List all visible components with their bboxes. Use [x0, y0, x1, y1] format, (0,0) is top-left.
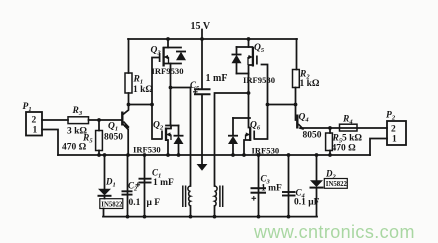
wire branch to right primary winding [215, 93, 249, 186]
svg-text:Q4: Q4 [299, 113, 310, 124]
svg-text:8050: 8050 [303, 131, 322, 141]
node Q6 source on rail [242, 153, 246, 157]
capacitor C2 0.1uF [122, 181, 161, 209]
wire right half-bridge column [248, 74, 250, 119]
node line Q3 bottom [164, 63, 182, 65]
wire R5a bottom lead [98, 151, 100, 156]
transformer right primary winding [215, 186, 218, 206]
node line Q6 top [233, 117, 250, 119]
wire Q2 gate lead [152, 105, 162, 140]
wire left half-bridge column [170, 64, 172, 126]
wire gate drive line left [129, 104, 153, 106]
wire R1 top lead from rail [128, 39, 130, 73]
wire Q2 body diode bottom lead [178, 144, 180, 156]
node C3 on rail [257, 153, 261, 157]
svg-text:R1: R1 [133, 75, 144, 86]
node Q3 source on +15V rail [166, 37, 170, 41]
node right bridge to winding tap [247, 91, 251, 95]
svg-text:R4: R4 [342, 115, 353, 126]
wire Q6 drain stub [249, 118, 251, 128]
diode D1 IN5822 [98, 177, 124, 209]
transformer left primary winding [188, 186, 191, 206]
wire Q3 drain to rail [167, 39, 169, 48]
wire branch to left primary winding [171, 87, 191, 89]
wire C1 vertical [144, 155, 146, 217]
node R3-R5a junction [97, 118, 101, 122]
svg-text:8050: 8050 [104, 133, 123, 143]
wire R1 bottom lead [128, 93, 130, 105]
svg-text:μ F: μ F [147, 198, 161, 208]
svg-text:IN5822: IN5822 [101, 201, 123, 208]
svg-text:5 kΩ: 5 kΩ [342, 134, 362, 144]
wire C3 vertical [258, 155, 260, 217]
transistor Q4 8050 [297, 113, 321, 141]
svg-text:0.1 μF: 0.1 μF [294, 198, 320, 208]
mosfet Q2 IRF530 [133, 121, 171, 155]
body diode of Q6 [228, 136, 238, 144]
body diode of Q5 [232, 55, 242, 64]
wire mid ground rail [58, 154, 370, 156]
capacitor C5 1mF [190, 73, 227, 94]
node line Q5 top [237, 46, 253, 48]
wire right winding bottom lead [214, 206, 216, 217]
wire C5 top lead [201, 39, 203, 89]
wire bottom rail [103, 216, 317, 218]
wire D2 top lead [316, 155, 318, 180]
connector P2 [386, 111, 406, 146]
body diode of Q2 [174, 136, 184, 144]
node right gate line left end [266, 103, 270, 107]
svg-text:1 mF: 1 mF [153, 178, 174, 188]
wire left winding top lead [190, 88, 192, 187]
capacitor C3 1mF [251, 174, 283, 201]
node C3 on bottom rail [257, 215, 261, 219]
node C1 on bottom rail [143, 215, 147, 219]
mosfet Q5 IRF9530 [243, 43, 275, 85]
watermark www.cntronics.com [254, 222, 415, 243]
svg-text:IN5822: IN5822 [326, 181, 348, 188]
svg-text:1 kΩ: 1 kΩ [133, 85, 153, 95]
node dots [97, 37, 332, 218]
resistor R5b 470 right [326, 133, 363, 154]
node R2 bottom / Q4 base [294, 103, 298, 107]
svg-text:470 Ω: 470 Ω [332, 144, 357, 154]
node 15V stub / C5 on rail [200, 37, 204, 41]
node line Q2 top [166, 125, 179, 127]
wire R5a top lead [98, 120, 100, 131]
resistor R3 3k input [67, 106, 89, 137]
wire Q5 source stub [249, 65, 253, 74]
node Q6 diode on rail [231, 153, 235, 157]
svg-text:0.1: 0.1 [129, 198, 141, 208]
svg-text:IRF530: IRF530 [133, 145, 161, 155]
node D1 on rail [103, 153, 107, 157]
wire C4 vertical [288, 155, 290, 217]
svg-text:15 V: 15 V [191, 21, 211, 32]
wire R2 top lead from rail [296, 39, 298, 70]
wire left winding bottom lead [190, 206, 192, 217]
wire Q6 body diode top lead [232, 118, 234, 136]
node Q1 emitter / C2 on rail [126, 153, 130, 157]
node left bridge to winding tap [169, 86, 173, 90]
svg-text:Q6: Q6 [250, 121, 261, 132]
node R5b top junction [328, 126, 332, 130]
wire R5b bottom lead [329, 151, 331, 156]
wire Q6 source stub to rail [244, 140, 250, 155]
wire +15V top rail [128, 38, 297, 40]
svg-text:D1: D1 [105, 177, 116, 189]
wire Q6 body diode bottom lead [232, 144, 234, 156]
resistor R1 1k left [125, 73, 153, 95]
mosfet Q6 IRF530 [246, 121, 280, 156]
wire Q5 gate lead [262, 65, 268, 105]
node C4 on bottom rail [287, 215, 291, 219]
wire P1 pin1 down to ground rail [42, 130, 58, 156]
wire Q3 gate column [152, 58, 159, 105]
svg-text:Q1: Q1 [108, 122, 118, 133]
wire Q5 drain to rail [248, 39, 250, 47]
svg-text:1 kΩ: 1 kΩ [300, 79, 320, 89]
wire R3 to Q1 base [89, 119, 123, 121]
wire C2 vertical [127, 155, 129, 217]
wire D1 bottom lead [104, 197, 105, 217]
transformer core right [220, 186, 223, 208]
body diode of Q3 [176, 52, 186, 61]
wire C5 bottom lead to arrow [201, 95, 203, 164]
wire R5b top lead [329, 128, 331, 133]
resistor R5a 470 left [62, 131, 102, 153]
resistor R2 1k right [293, 70, 320, 90]
resistor R4 5k right [340, 115, 358, 132]
svg-text:P2: P2 [386, 111, 396, 122]
transistor Q1 8050 [104, 112, 130, 143]
svg-text:1 mF: 1 mF [206, 73, 228, 84]
wire Q4 base from gate node [295, 105, 297, 121]
svg-text:R3: R3 [72, 106, 83, 117]
wire Q5 body diode top lead [236, 47, 238, 55]
svg-text:IRF9530: IRF9530 [152, 66, 184, 76]
svg-text:Q2: Q2 [153, 121, 164, 132]
node C1 on rail [143, 153, 147, 157]
capacitor C1 1mF [136, 168, 175, 189]
wire Q2 source stub to rail [166, 140, 168, 155]
mosfet Q3 IRF9530 [151, 46, 184, 77]
wire Q4 emitter to output [303, 127, 388, 129]
center-tap down arrow [197, 164, 208, 171]
wire R2 bottom lead [295, 88, 297, 105]
wire Q1 collector [124, 105, 129, 115]
wire Q5 body diode bottom lead [236, 63, 238, 74]
svg-text:Q3: Q3 [151, 46, 162, 57]
node D2 on rail [315, 153, 319, 157]
node line Q5 bottom [237, 73, 249, 75]
node left gate line right end [150, 103, 154, 107]
node R5b bottom on rail [328, 153, 332, 157]
wire Q1 emitter down to rail [124, 125, 129, 156]
svg-text:IRF9530: IRF9530 [243, 75, 275, 85]
svg-text:2: 2 [391, 125, 396, 135]
node R1 bottom / Q1 collector [127, 103, 131, 107]
svg-text:Q5: Q5 [254, 43, 265, 54]
capacitor C4 0.1uF [282, 188, 320, 208]
svg-text:470 Ω: 470 Ω [62, 143, 87, 153]
wire Q2 drain stub [166, 126, 171, 129]
svg-text:2: 2 [32, 116, 37, 126]
svg-text:1: 1 [33, 126, 38, 136]
wire P1 pin2 to R3 [42, 119, 68, 121]
node Q5 source on +15V rail [247, 37, 251, 41]
node right winding on bottom rail [213, 215, 217, 219]
wire Q6 gate lead [255, 105, 268, 140]
node C2 on bottom rail [126, 215, 130, 219]
wire D2 bottom lead [316, 189, 318, 217]
wire D1 top lead [104, 155, 106, 189]
node line Q3 top [164, 47, 182, 49]
wire Q2 body diode top lead [178, 126, 180, 136]
svg-text:IRF530: IRF530 [252, 146, 280, 156]
node Q2 source on rail [166, 153, 170, 157]
connector P1 [23, 102, 43, 136]
wire 15V supply stub [201, 30, 203, 40]
transformer core left [183, 186, 186, 208]
svg-text:1 mF: 1 mF [261, 184, 282, 194]
svg-text:1: 1 [392, 135, 397, 145]
wire P2 pin1 down to ground rail [370, 139, 387, 156]
svg-text:P1: P1 [23, 102, 32, 113]
node R5a bottom on rail [97, 153, 101, 157]
wire gate drive line right [268, 104, 296, 106]
node left winding on bottom rail [189, 215, 193, 219]
node Q2 diode on rail [177, 153, 181, 157]
diode D2 IN5822 [310, 169, 348, 189]
node C4 on rail [287, 153, 291, 157]
